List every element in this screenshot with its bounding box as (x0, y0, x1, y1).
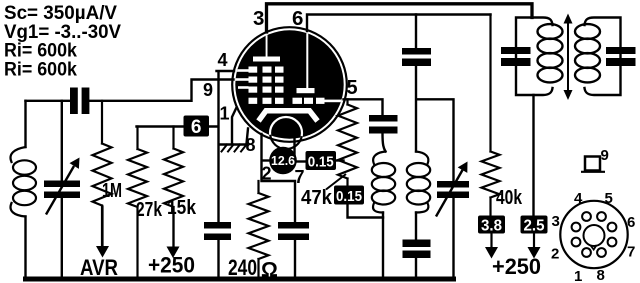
box 3.8 (478, 216, 505, 234)
tube pin 3 anode lead and plate (266, 30, 268, 57)
capacitor: anode coupling plates (369, 115, 398, 122)
capacitor: cathode bypass plates (278, 222, 309, 229)
svg-text:3.8: 3.8 (481, 218, 502, 235)
svg-text:Ω: Ω (261, 259, 278, 282)
capacitor: tuning variable left plates (44, 181, 80, 188)
svg-text:2: 2 (551, 246, 559, 263)
arrow shaft oscillator cap (436, 170, 463, 217)
svg-text:Ri= 600k: Ri= 600k (4, 60, 77, 81)
wire: heater pin 7 lead (293, 136, 295, 162)
arrow to AVR (96, 246, 109, 258)
svg-text:6: 6 (627, 214, 635, 231)
arrow shaft AVR (101, 206, 103, 250)
arrow below 3.8 (485, 247, 498, 259)
arrowhead tuning cap left (70, 158, 80, 169)
capacitor: IF1 secondary bottom plates (403, 240, 431, 248)
tube socket bottom view (560, 201, 627, 268)
arrowhead oscillator cap (458, 162, 468, 173)
arrow shaft 3.8 (490, 234, 492, 251)
svg-text:8: 8 (246, 135, 256, 155)
arrow shaft tuning cap left (46, 166, 74, 215)
arrow shaft 2.5 (533, 234, 535, 251)
svg-text:6: 6 (191, 117, 202, 138)
svg-text:+250: +250 (492, 254, 541, 279)
svg-text:15k: 15k (167, 196, 196, 219)
tube grid side stubs (236, 69, 249, 72)
capacitor: input coupling (70, 88, 78, 115)
svg-text:27k: 27k (136, 198, 162, 221)
svg-text:6: 6 (292, 7, 303, 30)
svg-text:AVR: AVR (80, 255, 118, 280)
svg-text:47k: 47k (301, 186, 333, 209)
tube pin 6 lead and plate (306, 30, 308, 89)
tube V1 heptode envelope (232, 27, 347, 142)
bottom ground rail (26, 277, 454, 282)
wire: left antenna rail (24, 101, 26, 278)
wire: 0.15 box 2 to ground line (348, 205, 384, 218)
capacitor box 0.15 (47k bypass) (334, 186, 364, 205)
wire: cathode pin 2 down and across (262, 134, 296, 278)
svg-text:0.15: 0.15 (308, 154, 334, 171)
svg-text:1M: 1M (102, 179, 122, 202)
inductor: IF1 secondary winding (407, 152, 430, 213)
svg-text:2: 2 (262, 164, 272, 184)
svg-text:9: 9 (601, 147, 609, 164)
capacitor: IF2 primary parallel plates (501, 47, 531, 54)
capacitor box 6 (AVC) (184, 116, 210, 137)
wire: 12.6 heater stub left (264, 159, 271, 161)
svg-text:240: 240 (228, 255, 257, 280)
pointer line 47k (326, 174, 346, 190)
wire: pin 5 output wire (344, 99, 386, 151)
svg-text:0.15: 0.15 (336, 188, 362, 205)
wire: input top wire to grid pin 9 (26, 80, 234, 101)
wire: screen pin 6 rail (307, 15, 491, 32)
ground chassis hatch (219, 143, 247, 146)
svg-text:3: 3 (253, 7, 264, 30)
capacitor: oscillator variable plates (437, 181, 469, 188)
svg-text:8: 8 (597, 267, 605, 283)
wire: AVC line from 6 box to grid 4 (137, 71, 235, 278)
svg-text:1: 1 (574, 268, 582, 283)
tube shield electrode (259, 111, 318, 121)
resistor 47k (338, 99, 357, 185)
capacitor box 0.15 (heater) (306, 151, 337, 170)
svg-text:Ri= 600k: Ri= 600k (4, 41, 77, 62)
wire: screen decoupling branch (416, 15, 454, 279)
resistor 40k screen dropper (482, 15, 500, 216)
wire: IF transformer feed to 2.5 (532, 95, 534, 216)
svg-text:4: 4 (574, 190, 583, 207)
coupling double arrow heads (564, 14, 573, 24)
svg-text:2.5: 2.5 (524, 218, 545, 235)
arrow shaft +250 left (172, 207, 174, 250)
capacitor: AVC decoupling plates (204, 222, 231, 229)
arrow to +250 left (167, 247, 180, 259)
svg-text:Sc= 350µA/V: Sc= 350µA/V (4, 3, 117, 24)
svg-text:5: 5 (605, 190, 613, 207)
wire: pin 8 lead to chassis (232, 108, 248, 144)
wire: 0.15 box to 47k line (336, 159, 344, 161)
resistor 15k (164, 127, 183, 247)
svg-text:4: 4 (218, 50, 228, 70)
resistor 240 ohm cathode (249, 181, 269, 278)
svg-text:40k: 40k (496, 186, 522, 209)
capacitor: screen branch plates (402, 48, 431, 55)
wire: tuning branch left (61, 101, 63, 278)
inductor: IF2 primary winding (516, 18, 563, 96)
svg-text:7: 7 (627, 244, 635, 261)
tube grid dashes (249, 67, 258, 73)
svg-text:9: 9 (203, 80, 213, 100)
svg-text:1: 1 (220, 104, 230, 124)
svg-text:12.6: 12.6 (271, 153, 295, 168)
wire: anode pin 3 top rail (267, 4, 533, 32)
resistor 27k (128, 127, 147, 279)
wire: 12.6 to 0.15 box (296, 160, 306, 162)
socket shell symbol 9 (581, 157, 605, 172)
svg-text:7: 7 (295, 167, 305, 187)
svg-text:3: 3 (552, 213, 560, 230)
coupling double arrow shaft (567, 18, 569, 96)
resistor 1M (AVC) (93, 101, 112, 246)
box 2.5 (521, 216, 548, 234)
svg-text:+250: +250 (148, 253, 195, 278)
inductor: IF1 primary winding (372, 152, 395, 213)
tube cathode circle (270, 117, 302, 149)
inductor: antenna coil (11, 147, 36, 217)
capacitor: IF2 secondary parallel plates (606, 47, 636, 54)
arrow below 2.5 (528, 247, 541, 259)
wire: IF primary bottom to rail (382, 213, 384, 279)
inductor: IF2 secondary winding (575, 18, 621, 96)
svg-text:5: 5 (347, 77, 358, 99)
heater voltage circle 12.6 (269, 147, 297, 175)
